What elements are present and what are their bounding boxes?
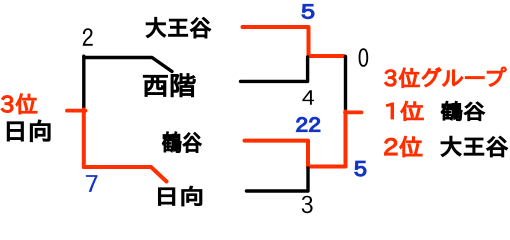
label 日向 (third place winner, left) — [7, 120, 50, 141]
wire: final vertical upper (black, 大王谷 path) — [344, 57, 347, 112]
label 1位 (right) — [386, 101, 423, 120]
team label 鶴谷 (semifinal 2 top) — [162, 132, 201, 153]
label 鶴谷 first place (right) — [441, 101, 484, 120]
wire: third-place bracket vertical (lower, red winner path) — [82, 110, 86, 168]
score 5 (大王谷, semifinal 1) — [302, 5, 314, 19]
score 2 (西階, third place match) — [83, 28, 93, 46]
score 5 (鶴谷, final) — [355, 161, 366, 176]
wire: semifinal-2 loser line 日向 (black) — [247, 168, 309, 191]
heading 3位グループ (right) — [385, 67, 507, 87]
score 0 (大王谷, final) — [359, 48, 369, 67]
label 大王谷 second place (right) — [441, 136, 507, 156]
wire: semifinal-1 loser line 西階 (black) — [241, 57, 308, 81]
wire: semifinal-1 winner line 大王谷 (red) — [243, 27, 345, 56]
wire: third-place winner stub (red) — [67, 109, 86, 113]
wire: final winner stub (red) — [345, 111, 362, 115]
wire: final vertical lower (red, 鶴谷 winner path) — [309, 112, 346, 167]
label 3位 (third place, left) — [1, 94, 37, 114]
score 7 (日向, third place match) — [86, 175, 98, 192]
score 3 (日向, semifinal 2) — [302, 196, 313, 214]
wire: third-place bracket top line to 西階 — [85, 58, 173, 72]
score 22 (鶴谷, semifinal 2) — [296, 117, 320, 131]
wire: semifinal-2 winner line 鶴谷 (red) — [245, 141, 309, 168]
team label 大王谷 (semifinal 1 top) — [146, 18, 210, 38]
team label 西階 (semifinal 1 bottom) — [144, 74, 196, 97]
wire: third-place bracket vertical (upper, black) — [82, 56, 85, 110]
label 2位 (right) — [385, 136, 422, 156]
wire: third-place bracket bottom line (red) — [84, 167, 167, 182]
score 4 (西階, semifinal 1) — [302, 90, 314, 104]
team label 日向 (semifinal 2 bottom) — [159, 186, 202, 206]
